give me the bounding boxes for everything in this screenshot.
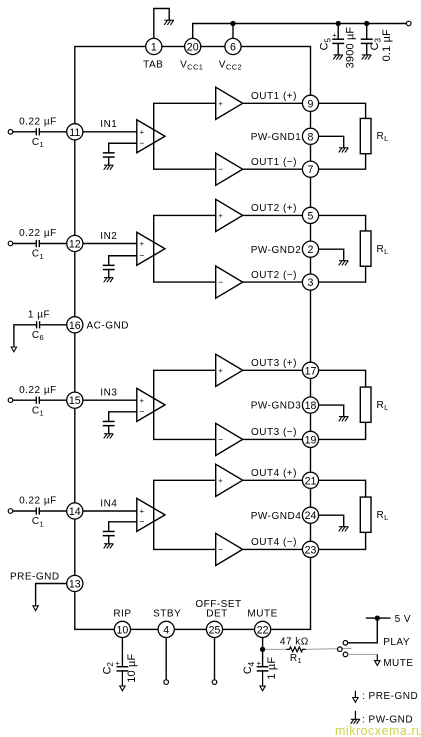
svg-text:PW-GND4: PW-GND4 (251, 511, 302, 522)
wire splitter ch4 (154, 480, 216, 549)
resistor RL ch1 (360, 118, 371, 153)
wire C1 to pin 14 (39, 510, 66, 512)
svg-text:C1: C1 (32, 405, 44, 417)
PW-GND symbol below C3 (362, 55, 372, 60)
svg-text:+: + (115, 658, 120, 667)
svg-text:+: + (140, 396, 145, 405)
wire PW-GND2 to ground (319, 249, 344, 261)
svg-text:0.22 µF: 0.22 µF (19, 117, 57, 128)
svg-text:−: − (139, 250, 144, 260)
svg-text:C1: C1 (32, 249, 44, 261)
wire RL to pin 19 ch3 (319, 422, 366, 439)
svg-text:C1: C1 (32, 137, 44, 149)
op-amp output stage + ch3 (216, 354, 243, 386)
wire RL to pin 23 ch4 (319, 532, 366, 549)
wire R1 to switch pole lever (gray) (306, 648, 352, 649)
input terminal IN1 (8, 130, 13, 135)
wire OUT1(-) ch1 (243, 168, 303, 170)
wire PW-GND3 to ground (319, 405, 344, 417)
PW-GND symbol below C5 (333, 55, 343, 60)
capacitor C4 1uF (257, 667, 269, 671)
svg-text:21: 21 (305, 475, 317, 487)
op-amp output stage - ch4 (216, 533, 243, 565)
feedback capacitor ch3 (103, 421, 115, 425)
pin 16 AC-GND (67, 317, 83, 333)
wire pin 17 to RL ch3 (319, 370, 366, 387)
wire VCC2 pin 6 up to rail (232, 24, 234, 47)
svg-text:PW-GND2: PW-GND2 (251, 245, 302, 256)
svg-text:+: + (332, 31, 337, 40)
svg-text:C2: C2 (102, 662, 116, 675)
STBY terminal (164, 680, 169, 685)
resistor RL ch4 (360, 497, 371, 532)
svg-text:7: 7 (308, 164, 314, 176)
capacitor C1 input coupling ch3 (36, 397, 39, 404)
svg-text:8: 8 (308, 131, 314, 143)
pin 17 OUT3(+) (302, 362, 318, 378)
pin 23 OUT4(-) (302, 541, 318, 557)
svg-text:: PRE-GND: : PRE-GND (362, 691, 418, 702)
capacitor C1 input coupling ch4 (36, 507, 39, 514)
svg-text:C4: C4 (242, 661, 256, 674)
svg-text:IN1: IN1 (100, 119, 117, 130)
capacitor C1 input coupling ch2 (36, 240, 39, 247)
svg-text:TAB: TAB (143, 59, 163, 70)
capacitor C6 1uF (37, 321, 40, 328)
wire OUT4(-) ch4 (243, 548, 303, 550)
PW-GND symbol feedback ch4 (104, 544, 114, 549)
pin 14 IN4 (67, 503, 83, 519)
svg-text:10: 10 (117, 624, 129, 636)
svg-text:12: 12 (69, 239, 81, 251)
feedback capacitor ch4 (103, 531, 115, 535)
wire IN4 pin to input amp (83, 510, 137, 512)
svg-text:OUT3 (+): OUT3 (+) (251, 358, 297, 369)
svg-text:VCC2: VCC2 (219, 59, 242, 71)
wire input terminal to C1 (ch2) (13, 243, 36, 245)
svg-text:+: + (140, 127, 145, 136)
svg-text:18: 18 (305, 400, 317, 412)
svg-text:16: 16 (69, 320, 81, 332)
svg-text:−: − (139, 138, 144, 148)
feedback capacitor ch2 (103, 265, 115, 269)
PW-GND symbol ch4 (339, 527, 349, 532)
input terminal IN4 (8, 509, 13, 514)
svg-text:25: 25 (209, 624, 221, 636)
wire C1 to pin 11 (39, 131, 66, 133)
wire RL to pin 7 ch1 (319, 154, 366, 169)
legend PW-GND symbol (354, 711, 356, 720)
pin 2 PW-GND2 (302, 241, 318, 257)
wire OUT3(+) ch3 (243, 369, 303, 371)
PRE-GND symbol below C6 (11, 346, 16, 352)
pin 6 VCC2 (225, 38, 241, 54)
svg-text:PW-GND1: PW-GND1 (251, 132, 302, 143)
pin 15 IN3 (67, 392, 83, 408)
svg-text:0.1 µF: 0.1 µF (381, 29, 393, 61)
supply rail wire to right terminal (233, 23, 406, 25)
capacitor C2 10uF (117, 667, 129, 671)
svg-text:MUTE: MUTE (383, 658, 413, 669)
svg-text:3900 µF: 3900 µF (345, 27, 357, 69)
svg-text:−: − (139, 516, 144, 526)
svg-text:11: 11 (69, 127, 80, 139)
svg-text:+: + (218, 211, 223, 220)
wire IN1 pin to input amp (83, 131, 137, 133)
wire C6 to PRE-GND (14, 325, 37, 346)
svg-text:0.22 µF: 0.22 µF (19, 496, 57, 507)
junction C5 (336, 21, 341, 26)
svg-text:6: 6 (230, 42, 236, 54)
wire feedback cap to ground ch4 (108, 536, 110, 544)
svg-text:13: 13 (69, 579, 81, 591)
svg-text:2: 2 (308, 244, 314, 256)
svg-text:4: 4 (163, 624, 169, 636)
wire IN2 pin to input amp (83, 243, 137, 245)
svg-text:R1: R1 (290, 653, 302, 665)
pin 5 OUT2(+) (302, 207, 318, 223)
op-amp input stage ch2 (137, 232, 165, 265)
wire pin 9 to RL ch1 (319, 103, 366, 118)
wire C3 to ground (366, 43, 368, 55)
wire MUTE throw down (gray) (348, 653, 378, 655)
op-amp output stage + ch4 (216, 464, 243, 496)
wire minus input to feedback cap ch2 (109, 256, 137, 266)
wire minus input to feedback cap ch1 (109, 143, 137, 153)
wire PLAY throw to 5V (348, 618, 378, 643)
svg-text:10 µF: 10 µF (126, 654, 138, 683)
pin 4 STBY (158, 621, 174, 637)
wire VCC1 pin 20 to supply rail (193, 24, 233, 47)
wire input terminal to C1 (ch4) (13, 510, 36, 512)
wire OUT2(+) ch2 (243, 214, 303, 216)
svg-text:OUT3 (−): OUT3 (−) (251, 427, 297, 438)
svg-text:STBY: STBY (153, 608, 181, 619)
legend PRE-GND symbol (353, 691, 358, 703)
svg-text:OUT1 (+): OUT1 (+) (251, 91, 297, 102)
junction 5V (375, 615, 380, 620)
svg-text:mikrocxema.ru: mikrocxema.ru (335, 724, 421, 737)
svg-text:5: 5 (308, 210, 314, 222)
wire minus input to feedback cap ch3 (109, 412, 137, 422)
pin 8 PW-GND1 (302, 128, 318, 144)
wire feedback cap to ground ch1 (108, 157, 110, 165)
PW-GND symbol ch2 (339, 261, 349, 266)
wire splitter ch1 (154, 103, 216, 169)
wire C5 to ground (337, 43, 339, 55)
wire 5V supply (366, 617, 391, 619)
svg-text:−: − (218, 277, 223, 287)
svg-text:VCC1: VCC1 (180, 59, 203, 71)
svg-text:+: + (257, 658, 262, 667)
resistor R1 47k (286, 647, 305, 652)
wire junction to R1 (gray) (265, 648, 286, 650)
wire OUT1(+) ch1 (243, 102, 303, 104)
svg-text:1 µF: 1 µF (266, 657, 278, 680)
junction C3 (364, 21, 369, 26)
pin 20 VCC1 (185, 38, 201, 54)
svg-text:0.22 µF: 0.22 µF (19, 228, 57, 239)
wire OUT2(-) ch2 (243, 281, 303, 283)
svg-text:+: + (140, 507, 145, 516)
switch pole contact (338, 647, 343, 652)
wire input terminal to C1 (ch1) (13, 131, 36, 133)
pin 12 IN2 (67, 235, 83, 251)
svg-text:0.22 µF: 0.22 µF (19, 385, 57, 396)
wire OUT4(+) ch4 (243, 479, 303, 481)
svg-text:−: − (218, 544, 223, 554)
wire pin 4 to terminal (165, 638, 167, 680)
wire PW-GND1 to ground (319, 136, 344, 148)
svg-text:OUT2 (+): OUT2 (+) (251, 203, 297, 214)
feedback capacitor ch1 (103, 153, 115, 157)
resistor RL ch3 (360, 387, 371, 422)
pin 1 TAB (146, 38, 162, 54)
svg-text:DET: DET (206, 608, 228, 619)
svg-text:−: − (218, 164, 223, 174)
wire junction to C4 (262, 649, 264, 666)
svg-text:OUT4 (−): OUT4 (−) (251, 537, 297, 548)
pin 7 OUT1(-) (302, 161, 318, 177)
PRE-GND symbol below C2 (120, 671, 125, 691)
wire C1 to pin 12 (39, 243, 66, 245)
svg-text:24: 24 (305, 510, 317, 522)
pin 22 MUTE (255, 621, 271, 637)
PRE-GND symbol below C4 (260, 671, 265, 691)
switch throw PLAY (343, 641, 348, 646)
input terminal IN3 (8, 398, 13, 403)
wire pin 5 to RL ch2 (319, 215, 366, 231)
OFF-SET DET terminal (212, 680, 217, 685)
svg-text:3: 3 (308, 277, 314, 289)
pin 19 OUT3(-) (302, 431, 318, 447)
op-amp output stage - ch2 (216, 266, 243, 298)
svg-text:17: 17 (305, 365, 317, 377)
svg-text:−: − (139, 406, 144, 416)
input terminal IN2 (8, 241, 13, 246)
PW-GND symbol feedback ch3 (104, 434, 114, 439)
PRE-GND symbol MUTE (375, 654, 380, 665)
op-amp input stage ch3 (137, 388, 165, 421)
wire rail to C5 (337, 24, 339, 40)
PW-GND symbol feedback ch1 (104, 165, 114, 170)
wire input terminal to C1 (ch3) (13, 399, 36, 401)
wire feedback cap to ground ch2 (108, 270, 110, 278)
pin 9 OUT1(+) (302, 95, 318, 111)
PW-GND symbol ch1 (339, 148, 349, 153)
wire OUT3(-) ch3 (243, 438, 303, 440)
supply input terminal (406, 21, 411, 26)
svg-text:+: + (218, 366, 223, 375)
op-amp output stage - ch3 (216, 423, 243, 455)
resistor RL ch2 (360, 231, 371, 266)
junction below pin 22 (260, 647, 265, 652)
svg-text:C1: C1 (32, 516, 44, 528)
svg-text:IN3: IN3 (100, 388, 117, 399)
op-amp output stage - ch1 (216, 153, 243, 185)
pin 11 IN1 (67, 124, 83, 140)
wire pin 25 to terminal (214, 638, 216, 680)
op-amp input stage ch4 (137, 498, 165, 531)
pin 18 PW-GND3 (302, 397, 318, 413)
svg-text:RL: RL (377, 131, 389, 143)
svg-text:RL: RL (377, 400, 389, 412)
PW-GND symbol ch3 (339, 417, 349, 422)
wire TAB pin 1 to top ground (154, 9, 169, 47)
svg-text:+: + (140, 239, 145, 248)
IC body outline (75, 47, 311, 630)
wire C6 to pin 16 (40, 324, 66, 326)
pin 21 OUT4(+) (302, 472, 318, 488)
svg-text:15: 15 (69, 395, 81, 407)
svg-text:MUTE: MUTE (247, 608, 277, 619)
svg-text:RIP: RIP (113, 608, 131, 619)
wire RL to pin 3 ch2 (319, 266, 366, 282)
wire C1 to pin 15 (39, 399, 66, 401)
svg-text:OUT2 (−): OUT2 (−) (251, 270, 297, 281)
svg-text:PW-GND3: PW-GND3 (251, 401, 302, 412)
svg-text:22: 22 (257, 624, 269, 636)
svg-text:+: + (218, 99, 223, 108)
wire IN3 pin to input amp (83, 399, 137, 401)
capacitor C3 0.1uF (361, 39, 373, 43)
wire pin 22 down to junction (262, 638, 264, 650)
svg-text:14: 14 (69, 506, 81, 518)
svg-text:IN4: IN4 (100, 498, 117, 509)
PRE-GND symbol pin 13 (33, 602, 38, 611)
capacitor C1 input coupling ch1 (36, 128, 39, 135)
capacitor C5 3900uF (332, 39, 344, 43)
legend PW-GND hatch (351, 719, 360, 723)
svg-text:PLAY: PLAY (383, 637, 410, 648)
svg-text:AC-GND: AC-GND (87, 320, 129, 331)
svg-text:OUT1 (−): OUT1 (−) (251, 157, 297, 168)
PW-GND symbol at TAB (164, 20, 174, 25)
wire pin 10 to C2 (121, 638, 123, 667)
op-amp input stage ch1 (137, 120, 165, 153)
wire PW-GND4 to ground (319, 515, 344, 527)
wire splitter ch3 (154, 370, 216, 439)
svg-text:C5: C5 (319, 38, 333, 51)
op-amp output stage + ch1 (216, 87, 243, 119)
wire pin 13 to PRE-GND arrow (36, 584, 67, 603)
svg-text:OUT4 (+): OUT4 (+) (251, 468, 297, 479)
svg-text:1 µF: 1 µF (28, 309, 50, 320)
svg-text:1: 1 (151, 42, 157, 54)
op-amp output stage + ch2 (216, 199, 243, 231)
PW-GND symbol feedback ch2 (104, 278, 114, 283)
svg-text:19: 19 (305, 434, 317, 446)
svg-text:23: 23 (305, 544, 317, 556)
pin 24 PW-GND4 (302, 507, 318, 523)
svg-text:9: 9 (308, 98, 314, 110)
svg-text:5 V: 5 V (395, 614, 412, 625)
junction above pin 6 (230, 21, 235, 26)
svg-text:47 kΩ: 47 kΩ (280, 637, 309, 648)
pin 13 PRE-GND (67, 575, 83, 591)
wire rail to C3 (366, 24, 368, 40)
svg-text:RL: RL (377, 510, 389, 522)
wire minus input to feedback cap ch4 (109, 522, 137, 532)
svg-text:RL: RL (377, 244, 389, 256)
svg-text:C6: C6 (32, 330, 44, 342)
pin 10 RIP (114, 621, 130, 637)
svg-text:20: 20 (187, 42, 199, 54)
pin 3 OUT2(-) (302, 274, 318, 290)
switch throw MUTE (343, 652, 348, 657)
svg-text:−: − (218, 434, 223, 444)
wire splitter ch2 (154, 215, 216, 282)
svg-text:IN2: IN2 (100, 231, 117, 242)
wire pin 21 to RL ch4 (319, 480, 366, 497)
svg-text:+: + (218, 476, 223, 485)
wire feedback cap to ground ch3 (108, 426, 110, 434)
pin 25 OFF-SET DET (206, 621, 222, 637)
svg-text:PRE-GND: PRE-GND (10, 572, 60, 583)
